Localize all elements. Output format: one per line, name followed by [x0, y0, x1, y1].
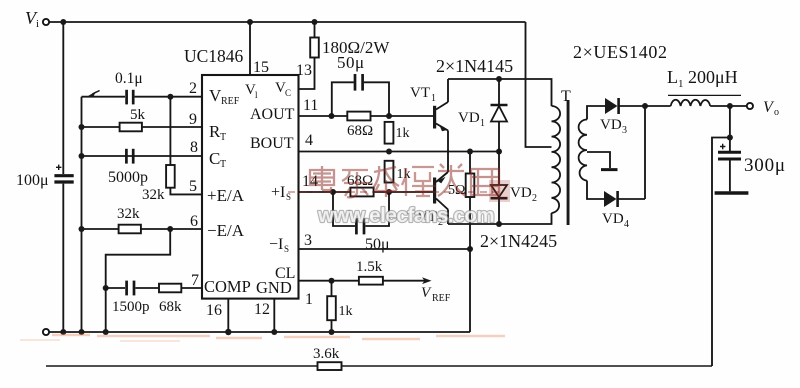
- resistor 1k first: [385, 122, 394, 144]
- wire secondary center tap: [587, 152, 610, 168]
- svg-text:VD: VD: [602, 211, 624, 227]
- label VREF inside: [209, 86, 240, 107]
- label 68k: [159, 299, 182, 315]
- svg-text:100μ: 100μ: [16, 172, 49, 189]
- svg-text:11: 11: [303, 97, 318, 114]
- label pin 1: [305, 291, 313, 308]
- svg-text:o: o: [774, 107, 779, 118]
- label 5ohm: [448, 183, 465, 198]
- svg-text:AOUT: AOUT: [250, 106, 295, 123]
- wire VT1 emitter: [447, 131, 449, 152]
- watermark red hanzi glyph 4: [402, 167, 436, 197]
- svg-text:5: 5: [189, 178, 197, 195]
- label -IS inside: [269, 236, 289, 254]
- label pin 15: [253, 59, 269, 76]
- svg-text:UC1846: UC1846: [184, 46, 244, 66]
- resistor 68ohm second: [350, 188, 373, 197]
- label pin 5: [189, 178, 197, 195]
- label 300u: [744, 155, 786, 176]
- wire pin 16: [227, 299, 229, 332]
- svg-text:6: 6: [190, 213, 198, 230]
- label 50u top: [337, 53, 365, 72]
- wire AOUT net: [299, 115, 434, 117]
- transformer T primary winding: [552, 106, 561, 213]
- label pin 6: [190, 213, 198, 230]
- label CT inside: [209, 149, 226, 170]
- label L1 200uH: [667, 67, 738, 90]
- svg-text:C: C: [209, 149, 220, 168]
- label 5000p: [108, 169, 148, 186]
- diode VD3: [605, 98, 645, 114]
- svg-text:C: C: [285, 88, 291, 98]
- label pin 7: [191, 272, 199, 289]
- label pin 3: [304, 232, 312, 249]
- svg-text:1: 1: [480, 118, 485, 129]
- label VD2: [510, 185, 537, 204]
- label CL inside: [275, 265, 295, 282]
- svg-text:32k: 32k: [117, 206, 140, 222]
- label 100u: [16, 172, 49, 189]
- wire Vo branch down: [729, 106, 731, 151]
- transformer T core: [567, 100, 570, 225]
- wire 1500p to 68k: [135, 287, 159, 289]
- svg-text:4: 4: [624, 219, 629, 230]
- wire pin9: [82, 126, 203, 128]
- label GND inside: [256, 278, 292, 297]
- label pin 9: [189, 111, 197, 128]
- svg-text:9: 9: [189, 111, 197, 128]
- label 5k: [130, 107, 146, 123]
- label 2x1N4145: [436, 56, 513, 76]
- svg-text:1: 1: [305, 291, 313, 308]
- node emitter/sense: [467, 149, 473, 155]
- wire pin1 net: [299, 280, 429, 282]
- svg-text:1500p: 1500p: [112, 299, 150, 315]
- watermark red hanzi glyph 6: [471, 169, 499, 195]
- wire ground rail: [49, 331, 470, 333]
- wire pin6: [82, 228, 203, 230]
- svg-text:68Ω: 68Ω: [347, 123, 373, 139]
- svg-text:13: 13: [296, 62, 312, 79]
- wire ground rail up right: [469, 249, 471, 332]
- wire sense to emitter line: [469, 152, 471, 174]
- node bus/pin6: [79, 226, 85, 232]
- label 32k horizontal: [117, 206, 140, 222]
- label VD1: [458, 110, 485, 129]
- diode VD1: [491, 79, 508, 152]
- wire VT2 collector: [447, 210, 449, 225]
- node +IS/50u: [330, 189, 336, 195]
- label VREF net: [421, 285, 451, 304]
- svg-text:L: L: [667, 67, 678, 87]
- svg-text:15: 15: [253, 59, 269, 76]
- label +IS inside: [271, 184, 291, 202]
- node emitter/diodes: [496, 149, 502, 155]
- svg-text:BOUT: BOUT: [250, 135, 294, 152]
- wire BOUT net: [299, 151, 500, 153]
- resistor 1k second: [385, 161, 394, 183]
- wire pin 13 upper: [314, 22, 316, 38]
- wire 32k to pin5: [170, 188, 202, 195]
- wire rectifier output vertical: [644, 106, 646, 199]
- label 0.1u: [115, 70, 143, 87]
- wire pin 15: [249, 22, 251, 75]
- node gnd/vref bus: [79, 329, 85, 335]
- label pin 8: [190, 139, 198, 156]
- label COMP inside: [204, 277, 251, 296]
- label 1500p: [112, 299, 150, 315]
- wire input rail upper: [62, 22, 64, 174]
- wire sense vertical: [469, 197, 471, 249]
- resistor 32k horizontal: [119, 225, 141, 234]
- wire pin2 right: [135, 96, 202, 98]
- label pin 12: [254, 301, 270, 318]
- label 180ohm/2W: [322, 38, 390, 57]
- svg-text:0.1μ: 0.1μ: [115, 70, 143, 87]
- node -IS / sense: [467, 246, 473, 252]
- label Vi: [25, 8, 39, 30]
- resistor 180ohm/2W: [310, 38, 319, 58]
- svg-text:−I: −I: [269, 236, 283, 253]
- wire secondary bottom: [587, 181, 604, 199]
- label 68ohm second: [347, 173, 373, 189]
- resistor 5ohm sense: [466, 174, 475, 198]
- svg-text:4: 4: [305, 132, 313, 149]
- node top rail / pin15: [247, 19, 253, 25]
- label UC1846: [184, 46, 244, 66]
- wire pin 13 lower: [299, 58, 315, 90]
- node pin1/1k: [329, 278, 335, 284]
- wire bottom line to primary: [448, 213, 552, 224]
- svg-text:5000p: 5000p: [108, 169, 148, 186]
- svg-text:VD: VD: [510, 185, 532, 201]
- wire comp node to ground: [105, 288, 107, 332]
- svg-text:50μ: 50μ: [365, 236, 390, 253]
- wire 1k third bottom: [331, 320, 333, 332]
- svg-text:COMP: COMP: [204, 277, 251, 296]
- node comp left: [103, 285, 109, 291]
- node gnd/comp: [103, 329, 109, 335]
- wire feedback bottom line: [46, 365, 712, 367]
- node rectifier output: [642, 103, 648, 109]
- node top rail / 180ohm: [312, 19, 318, 25]
- svg-text:REF: REF: [221, 96, 240, 107]
- svg-text:VD: VD: [458, 110, 480, 126]
- svg-text:www.elecfans.com: www.elecfans.com: [317, 204, 494, 227]
- svg-text:REF: REF: [432, 293, 451, 304]
- label AOUT inside: [250, 106, 295, 123]
- svg-text:2×UES1402: 2×UES1402: [573, 42, 668, 62]
- terminal Vo: [747, 103, 753, 109]
- label Vo: [763, 99, 779, 118]
- capacitor 1500p: [127, 281, 134, 296]
- svg-text:3.6k: 3.6k: [313, 346, 340, 362]
- node gnd/pin12: [271, 329, 277, 335]
- label 1k third: [339, 304, 353, 319]
- node gnd/pin16: [225, 329, 231, 335]
- label VD4: [602, 211, 629, 230]
- wire +IS net: [299, 191, 434, 193]
- wire vref bus vertical: [81, 97, 83, 332]
- transistor VT1: [433, 102, 448, 131]
- svg-text:VT: VT: [410, 85, 430, 101]
- diode VD4: [604, 191, 645, 207]
- wire 68k to pin7: [181, 287, 202, 289]
- wire pin 12: [273, 299, 275, 332]
- underline of L1 label: [668, 94, 741, 96]
- svg-text:68Ω: 68Ω: [347, 173, 373, 189]
- label BOUT inside: [250, 135, 294, 152]
- svg-text:1.5k: 1.5k: [356, 259, 383, 275]
- wire collector top line: [448, 79, 552, 106]
- label VT1: [410, 85, 436, 104]
- wire VT1 collector: [447, 79, 449, 102]
- label +E/A inside: [207, 186, 245, 205]
- svg-text:2: 2: [189, 80, 197, 97]
- svg-text:+E/A: +E/A: [207, 186, 245, 205]
- transformer T secondary winding: [579, 120, 587, 181]
- label -E/A inside: [207, 221, 245, 240]
- transistor VT2: [433, 172, 448, 210]
- scan artifact salmon smudges on ground rail: [52, 335, 505, 339]
- label 1k first: [396, 126, 410, 141]
- terminal Vi: [43, 19, 49, 25]
- svg-text:T: T: [220, 132, 226, 143]
- svg-text:2×1N4245: 2×1N4245: [480, 231, 557, 251]
- wire 32k vertical from pin2 node: [169, 97, 171, 165]
- svg-text:2×1N4145: 2×1N4145: [436, 56, 513, 76]
- svg-text:5k: 5k: [130, 107, 146, 123]
- node Vo: [727, 103, 733, 109]
- wire 1k third top: [331, 281, 333, 297]
- svg-text:T: T: [561, 88, 571, 105]
- svg-text:S: S: [286, 192, 291, 202]
- arrow VREF: [422, 277, 432, 284]
- node bottom line / VD2: [496, 221, 502, 227]
- node bus/pin8: [79, 153, 85, 159]
- arrow on pin2 wire: [88, 91, 100, 97]
- node AOUT/1k: [386, 113, 392, 119]
- capacitor 50u top: [332, 74, 389, 116]
- node top line / VD1: [496, 76, 502, 82]
- node AOUT/50u: [329, 113, 335, 119]
- label 1.5k: [356, 259, 383, 275]
- wire -IS net: [299, 248, 471, 250]
- label pin 11: [303, 97, 318, 114]
- label 68ohm top: [347, 123, 373, 139]
- label T: [561, 88, 571, 105]
- diode VD2: [491, 152, 508, 225]
- label VC inside: [275, 80, 291, 98]
- wire pin2: [82, 96, 126, 98]
- label 2x1N4245: [480, 231, 557, 251]
- svg-text:32k: 32k: [142, 187, 165, 203]
- resistor 68ohm top: [347, 112, 370, 121]
- svg-text:300μ: 300μ: [744, 155, 786, 176]
- node top rail / input rail: [60, 19, 66, 25]
- node pin6 feedback: [167, 226, 173, 232]
- label 2xUES1402: [573, 42, 668, 62]
- svg-text:8: 8: [190, 139, 198, 156]
- svg-text:GND: GND: [256, 278, 292, 297]
- wire VT2 emitter: [447, 152, 449, 173]
- resistor 32k vertical: [166, 165, 175, 188]
- terminal ground left: [43, 329, 49, 335]
- svg-text:VD: VD: [600, 117, 622, 133]
- watermark red hanzi glyph 3: [373, 166, 399, 197]
- label 3.6k: [313, 346, 340, 362]
- node +IS/1k: [386, 189, 392, 195]
- watermark red dashed line: [288, 191, 500, 193]
- capacitor 5000p: [126, 149, 133, 164]
- label RT inside: [209, 122, 226, 143]
- watermark url www.elecfans.com: [317, 204, 494, 227]
- wire pin7 left: [106, 287, 125, 289]
- svg-text:5Ω: 5Ω: [448, 183, 465, 198]
- capacitor 50u second: [333, 192, 389, 234]
- svg-text:S: S: [284, 244, 289, 254]
- wire secondary top: [587, 106, 605, 120]
- wire jog to feedback: [712, 138, 730, 367]
- svg-text:1k: 1k: [396, 126, 410, 141]
- svg-text:16: 16: [206, 302, 222, 319]
- capacitor 0.1u: [127, 90, 134, 105]
- wire input rail lower: [62, 184, 64, 332]
- node BOUT/1k: [386, 149, 392, 155]
- label 32k vertical: [142, 187, 165, 203]
- svg-text:50μ: 50μ: [337, 53, 365, 72]
- svg-text:1k: 1k: [339, 304, 353, 319]
- resistor 5k: [120, 123, 142, 132]
- wire pin8: [82, 155, 203, 157]
- svg-text:−E/A: −E/A: [207, 221, 245, 240]
- watermark red hanzi glyph 1: [310, 166, 334, 193]
- svg-text:1: 1: [678, 78, 684, 90]
- svg-text:68k: 68k: [159, 299, 182, 315]
- op-amp / IC U1 UC1846: [202, 75, 299, 299]
- svg-text:2: 2: [532, 193, 537, 204]
- label 50u second: [365, 236, 390, 253]
- label pin 16: [206, 302, 222, 319]
- label 1k second: [397, 167, 411, 182]
- watermark red tint on VD2: [489, 180, 510, 202]
- svg-text:3: 3: [304, 232, 312, 249]
- watermark red hanzi glyph 2: [342, 170, 370, 197]
- label VT2: [417, 209, 443, 228]
- label VD3: [600, 117, 627, 136]
- label pin 4: [305, 132, 313, 149]
- svg-text:3: 3: [622, 125, 627, 136]
- wire top rail: [49, 21, 525, 23]
- resistor 68k: [159, 284, 181, 293]
- svg-text:V: V: [421, 285, 432, 301]
- resistor 1k third: [327, 296, 336, 320]
- node gnd/1k: [329, 329, 335, 335]
- svg-text:1: 1: [431, 93, 436, 104]
- watermark red hanzi glyph 5: [438, 164, 466, 196]
- node bus/pin9: [79, 124, 85, 130]
- svg-text:T: T: [220, 159, 226, 170]
- ground bar center tap: [601, 168, 618, 171]
- svg-text:i: i: [36, 18, 39, 30]
- svg-text:12: 12: [254, 301, 270, 318]
- svg-text:200μH: 200μH: [688, 67, 738, 87]
- resistor 1.5k: [359, 277, 383, 285]
- svg-text:+I: +I: [271, 184, 285, 201]
- label VI inside: [245, 82, 258, 100]
- node Vo branch: [727, 135, 733, 141]
- wire center tap from Vi: [526, 22, 552, 147]
- svg-text:7: 7: [191, 272, 199, 289]
- label pin 13: [296, 62, 312, 79]
- inductor L1: [645, 100, 747, 106]
- label pin 14: [302, 173, 318, 190]
- node pin2 / 32k: [167, 94, 173, 100]
- capacitor 100u: [54, 165, 73, 182]
- resistor 3.6k: [318, 362, 342, 370]
- node gnd/input rail: [60, 329, 66, 335]
- capacitor 300u: [715, 144, 749, 193]
- wire feedback L path: [106, 229, 171, 288]
- label pin 2: [189, 80, 197, 97]
